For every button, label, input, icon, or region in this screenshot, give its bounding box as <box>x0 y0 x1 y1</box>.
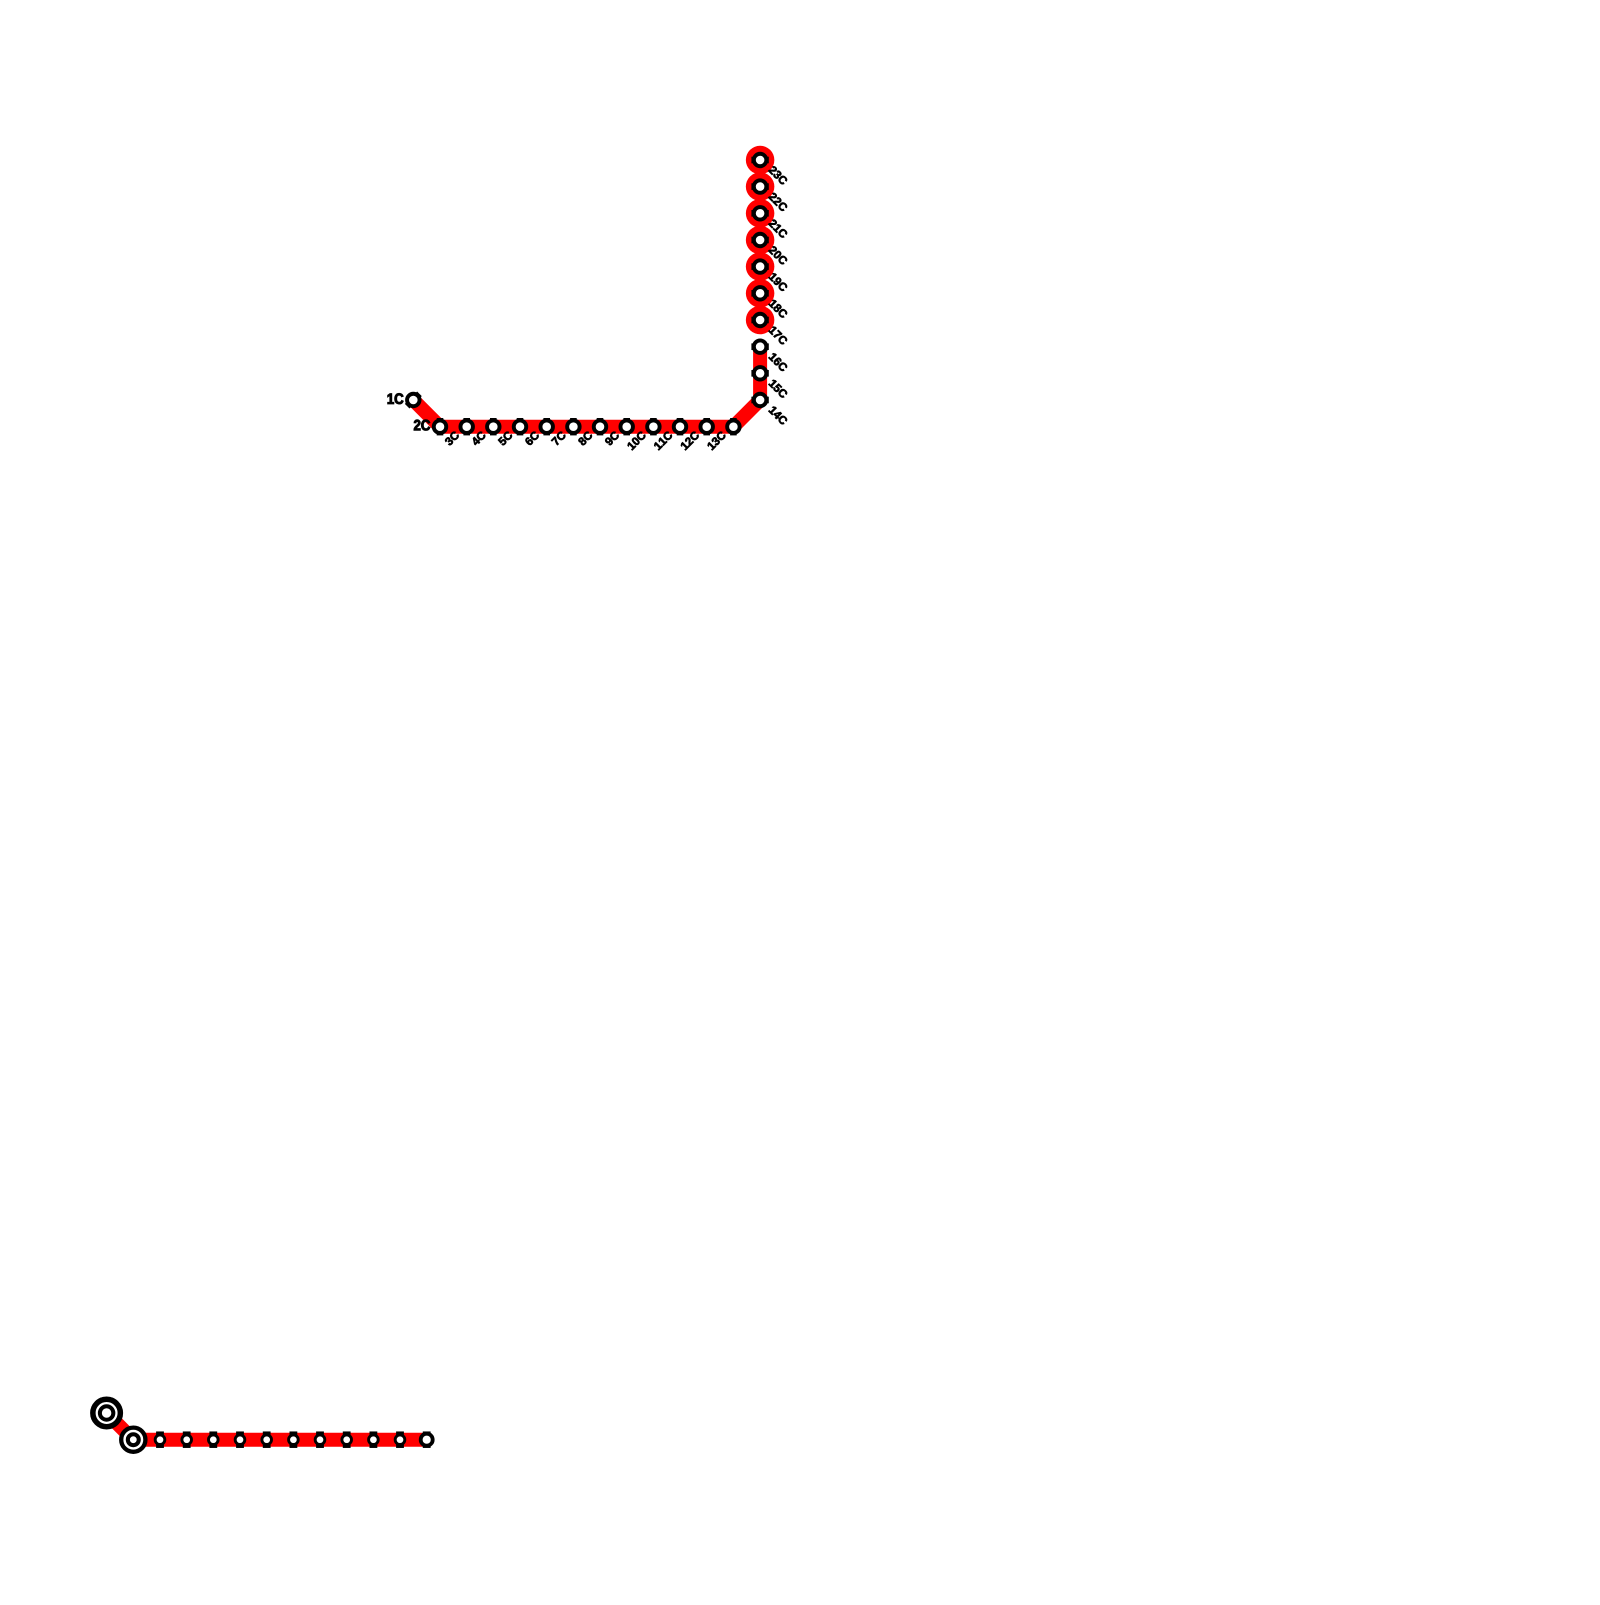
node 17C <box>751 317 768 324</box>
node 22C label <box>768 192 788 212</box>
node 7C <box>570 418 577 435</box>
node 22C red halo <box>746 172 775 201</box>
node 21C <box>751 210 768 217</box>
node 6C label <box>524 430 540 446</box>
node 16C label <box>768 352 788 372</box>
node 20C label <box>768 245 788 265</box>
node 8C label <box>578 430 594 446</box>
node 16C <box>751 343 768 350</box>
node 15C <box>751 370 768 377</box>
interchange B <box>121 1428 145 1452</box>
node 12C label <box>680 430 700 450</box>
node 17C label <box>768 326 788 346</box>
node S9 <box>370 1431 378 1448</box>
node 9C label <box>604 430 620 446</box>
node 1C <box>405 392 422 409</box>
node 11C <box>677 418 684 435</box>
node 19C <box>751 263 768 270</box>
node S7 <box>316 1431 324 1448</box>
node 6C <box>543 418 550 435</box>
node S6 <box>290 1431 298 1448</box>
node 23C red halo <box>746 146 775 175</box>
node 17C red halo <box>746 306 775 335</box>
node 18C label <box>768 299 788 319</box>
node 19C red halo <box>746 252 775 281</box>
node 7C label <box>551 430 567 446</box>
interchange A <box>93 1399 121 1427</box>
node S5 <box>263 1431 271 1448</box>
node 9C <box>623 418 630 435</box>
node 4C <box>490 418 497 435</box>
wire bottom line <box>107 1413 427 1440</box>
node 13C label <box>707 430 727 450</box>
node S2 <box>183 1431 191 1448</box>
node 5C <box>517 418 524 435</box>
node 22C <box>751 183 768 190</box>
node S10 <box>396 1431 404 1448</box>
node S8 <box>343 1431 351 1448</box>
node 12C <box>703 418 710 435</box>
node S4 <box>236 1431 244 1448</box>
wire top line C <box>413 347 760 427</box>
node 15C label <box>768 379 788 399</box>
node 23C label <box>768 165 788 185</box>
node 5C label <box>498 430 514 446</box>
node 21C label <box>768 219 788 239</box>
node 2C label <box>414 420 430 431</box>
node S1 <box>156 1431 164 1448</box>
node 10C <box>650 418 657 435</box>
node 1C label <box>388 393 404 404</box>
node 13C <box>730 418 737 435</box>
node 14C label <box>768 406 788 426</box>
node 11C label <box>653 430 673 450</box>
node 3C <box>463 418 470 435</box>
node 20C red halo <box>746 226 775 255</box>
node 19C label <box>768 272 788 292</box>
node 18C red halo <box>746 279 775 308</box>
node S3 <box>209 1431 217 1448</box>
node 4C label <box>471 430 487 446</box>
node 23C <box>751 157 768 164</box>
node 14C <box>751 397 768 404</box>
node 18C <box>751 290 768 297</box>
node 20C <box>751 237 768 244</box>
node 21C red halo <box>746 199 775 228</box>
node 3C label <box>444 430 460 446</box>
node 2C <box>437 418 444 435</box>
node S11 <box>423 1431 431 1448</box>
node 10C label <box>627 430 647 450</box>
node 8C <box>597 418 604 435</box>
